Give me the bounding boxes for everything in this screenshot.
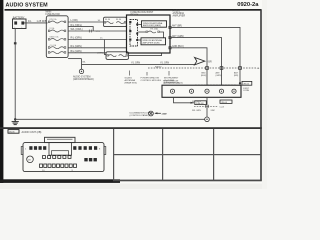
table middle horizontal [113,154,261,155]
ground arrow to body [195,57,212,65]
svg-text:CONN: CONN [243,90,250,92]
inline connector on row3 wire [88,30,90,33]
svg-text:2B-05: 2B-05 [9,132,15,134]
svg-text:R/L (OR/L): R/L (OR/L) [71,24,83,27]
wire row6 to accessory fuse box [68,52,106,54]
joint connector strip box [162,85,241,97]
svg-text:(REAR W/S): (REAR W/S) [125,81,138,84]
ground symbol [12,119,19,124]
wire GND continues below strip to lamp [206,97,208,117]
wire strip pin P1 drop [174,97,195,103]
strip pin P5 [232,89,236,93]
fuse block box [46,16,68,58]
svg-text:(BLK): (BLK) [201,75,207,77]
svg-text:(GROUND/SHIELD): (GROUND/SHIELD) [73,79,94,81]
svg-text:CIG 15A: CIG 15A [50,44,57,47]
connector symbol on boundary at GND wire [206,67,209,70]
svg-text:CONTROL MODULE: CONTROL MODULE [141,80,162,82]
svg-text:AUDIO UNIT (2B): AUDIO UNIT (2B) [22,131,42,134]
svg-text:Y/L GRN: Y/L GRN [160,63,169,65]
leader label power window module [141,72,162,82]
connector face: left tab [21,147,23,155]
svg-text:W/L GRN: W/L GRN [192,101,201,103]
svg-text:2B-04: 2B-04 [221,102,228,104]
wire shield to ground arrow [82,63,195,65]
left page border bar [0,0,3,183]
connector pins middle row [43,156,72,159]
wire battery down to ground [14,29,16,120]
fuse F4 [48,44,65,49]
table column vertical 3 [213,129,214,180]
divider line between diagram and bottom panel [0,127,262,129]
bottom panel: connector id box [8,130,19,134]
fuse F2 [48,27,65,32]
inline connector dashes on GND wire [194,105,225,109]
svg-text:4 BR: 4 BR [207,62,212,64]
svg-text:1G: 1G [98,20,101,22]
ground lamp node at wire end [205,117,210,122]
strip pin P2 [189,89,193,93]
connector symbol on boundary at ANT BR wire [239,67,242,70]
connector pins top-left row [29,146,46,150]
svg-text:RADIO 15A: RADIO 15A [50,36,60,39]
audio unit output pin row1 [169,26,171,28]
arrowhead on P1 wire [191,102,195,104]
wire row5 into audio unit [68,47,126,49]
leader label instrument cluster [164,71,183,84]
fuse F5 [48,52,65,54]
connector symbol on boundary at ANT GRN wire [220,67,223,70]
wire row2 stub with jog down [68,27,93,31]
connector pins top-right row [73,146,97,150]
wire row3 into audio unit [68,30,126,32]
svg-text:24M: 24M [211,110,215,112]
svg-text:24M: 24M [162,113,166,115]
wire ANT (BR) [171,25,240,84]
connector face: center bracket [49,143,72,156]
condenser / noise filter symbol [79,69,83,73]
table left vertical [113,129,114,180]
inline connector on battery wire [14,42,17,44]
connector id box dark [220,100,232,104]
svg-text:0920-2a: 0920-2a [237,2,259,8]
audio unit output pin row2 [169,37,171,39]
amplifier text box [142,21,167,27]
node battery ground junction [14,118,16,120]
bottom border line (thin right part) [113,180,262,182]
wire accessory fuse output under audio unit [129,53,162,56]
svg-text:W/L (OR/L): W/L (OR/L) [71,28,83,31]
wire ANT (GRN) [171,35,221,85]
svg-text:AUDIO SYSTEM: AUDIO SYSTEM [6,3,49,9]
svg-text:(BR): (BR) [234,75,239,77]
connector id box 24M-08 [195,101,207,105]
top rule [5,9,262,11]
svg-text:AMPLIFIER (SUB): AMPLIFIER (SUB) [143,41,160,44]
svg-text:F/L 15A: F/L 15A [151,27,159,30]
svg-text:Y/L GRN: Y/L GRN [131,63,140,65]
svg-text:2B-05: 2B-05 [243,83,250,85]
svg-text:(GRN): (GRN) [216,75,222,77]
node joint on ANT BR drop [239,82,241,84]
connector id box 2B-05 [242,81,252,85]
dashed connector line on strip top [195,84,237,86]
wire strip to sub amplifier box [138,39,141,41]
internal fuse [138,31,163,38]
connector face: top tab [45,137,76,142]
svg-text:B/L (GRN): B/L (GRN) [71,50,82,53]
wire battery to fuse block [24,22,48,24]
wire row7 shield stub [68,58,81,60]
wire row4 into audio unit [68,39,126,41]
strip pin P3 [205,89,209,93]
svg-text:F/L 30: F/L 30 [116,19,121,21]
sub amplifier text box [141,38,166,45]
connector key circle 2B [27,156,34,163]
svg-text:AMPLIFIER (MAIN): AMPLIFIER (MAIN) [143,24,161,27]
fuse F1 [48,18,65,23]
svg-text:R/L (GRN): R/L (GRN) [71,45,82,48]
page background [0,0,267,189]
illumination lamp symbol [149,111,154,116]
wire GND (BLK) [171,46,207,85]
bottom border bar (thick left part) [0,179,120,183]
leader label glass antenna [125,71,138,85]
svg-text:BTN 15A: BTN 15A [50,18,58,21]
connector pins right-middle group [84,158,97,161]
connector pins bottom row [40,164,77,167]
svg-text:RADIO: RADIO [155,66,162,69]
svg-text:R/L (GRN): R/L (GRN) [71,37,82,40]
strip pin P4 [219,89,223,93]
battery B+ box [13,19,27,29]
arrow from lamp [155,112,167,115]
svg-text:L (OR): L (OR) [71,19,78,22]
connector strip inside audio unit [129,20,138,47]
connector face: body [23,143,104,172]
accessory fuse box (two inline fuses) [106,52,129,60]
right page border [260,10,262,181]
wire strip to amplifier box [138,24,141,26]
svg-text:F/L 30: F/L 30 [105,19,110,21]
svg-text:1.25 W/B: 1.25 W/B [37,20,47,23]
wire ANT BR into strip [239,83,241,85]
wire row4 tap down to accessory fuses [104,40,106,55]
strip pin P1 [170,89,174,93]
svg-text:AMPLIFIER: AMPLIFIER [173,14,186,17]
connector face: right tab [104,147,106,155]
table column vertical 2 [162,129,163,180]
wire shield drop [81,59,83,70]
connector face: center inner window [52,151,69,156]
svg-text:W/L GRN: W/L GRN [192,110,201,112]
fuse F3 [48,36,65,41]
audio unit output pin row3 [169,47,171,49]
harness boundary dashed line [148,67,257,69]
ground bus wire across bottom of diagram [15,118,205,120]
relay fuse box (two inline fuses) [104,17,127,26]
wire row1 fuse block to relay fuses [68,21,103,23]
svg-text:DEFROSTER (24): DEFROSTER (24) [163,83,180,85]
audio unit U1 box [127,15,171,53]
svg-text:(CONTROL PANEL): (CONTROL PANEL) [130,114,150,117]
